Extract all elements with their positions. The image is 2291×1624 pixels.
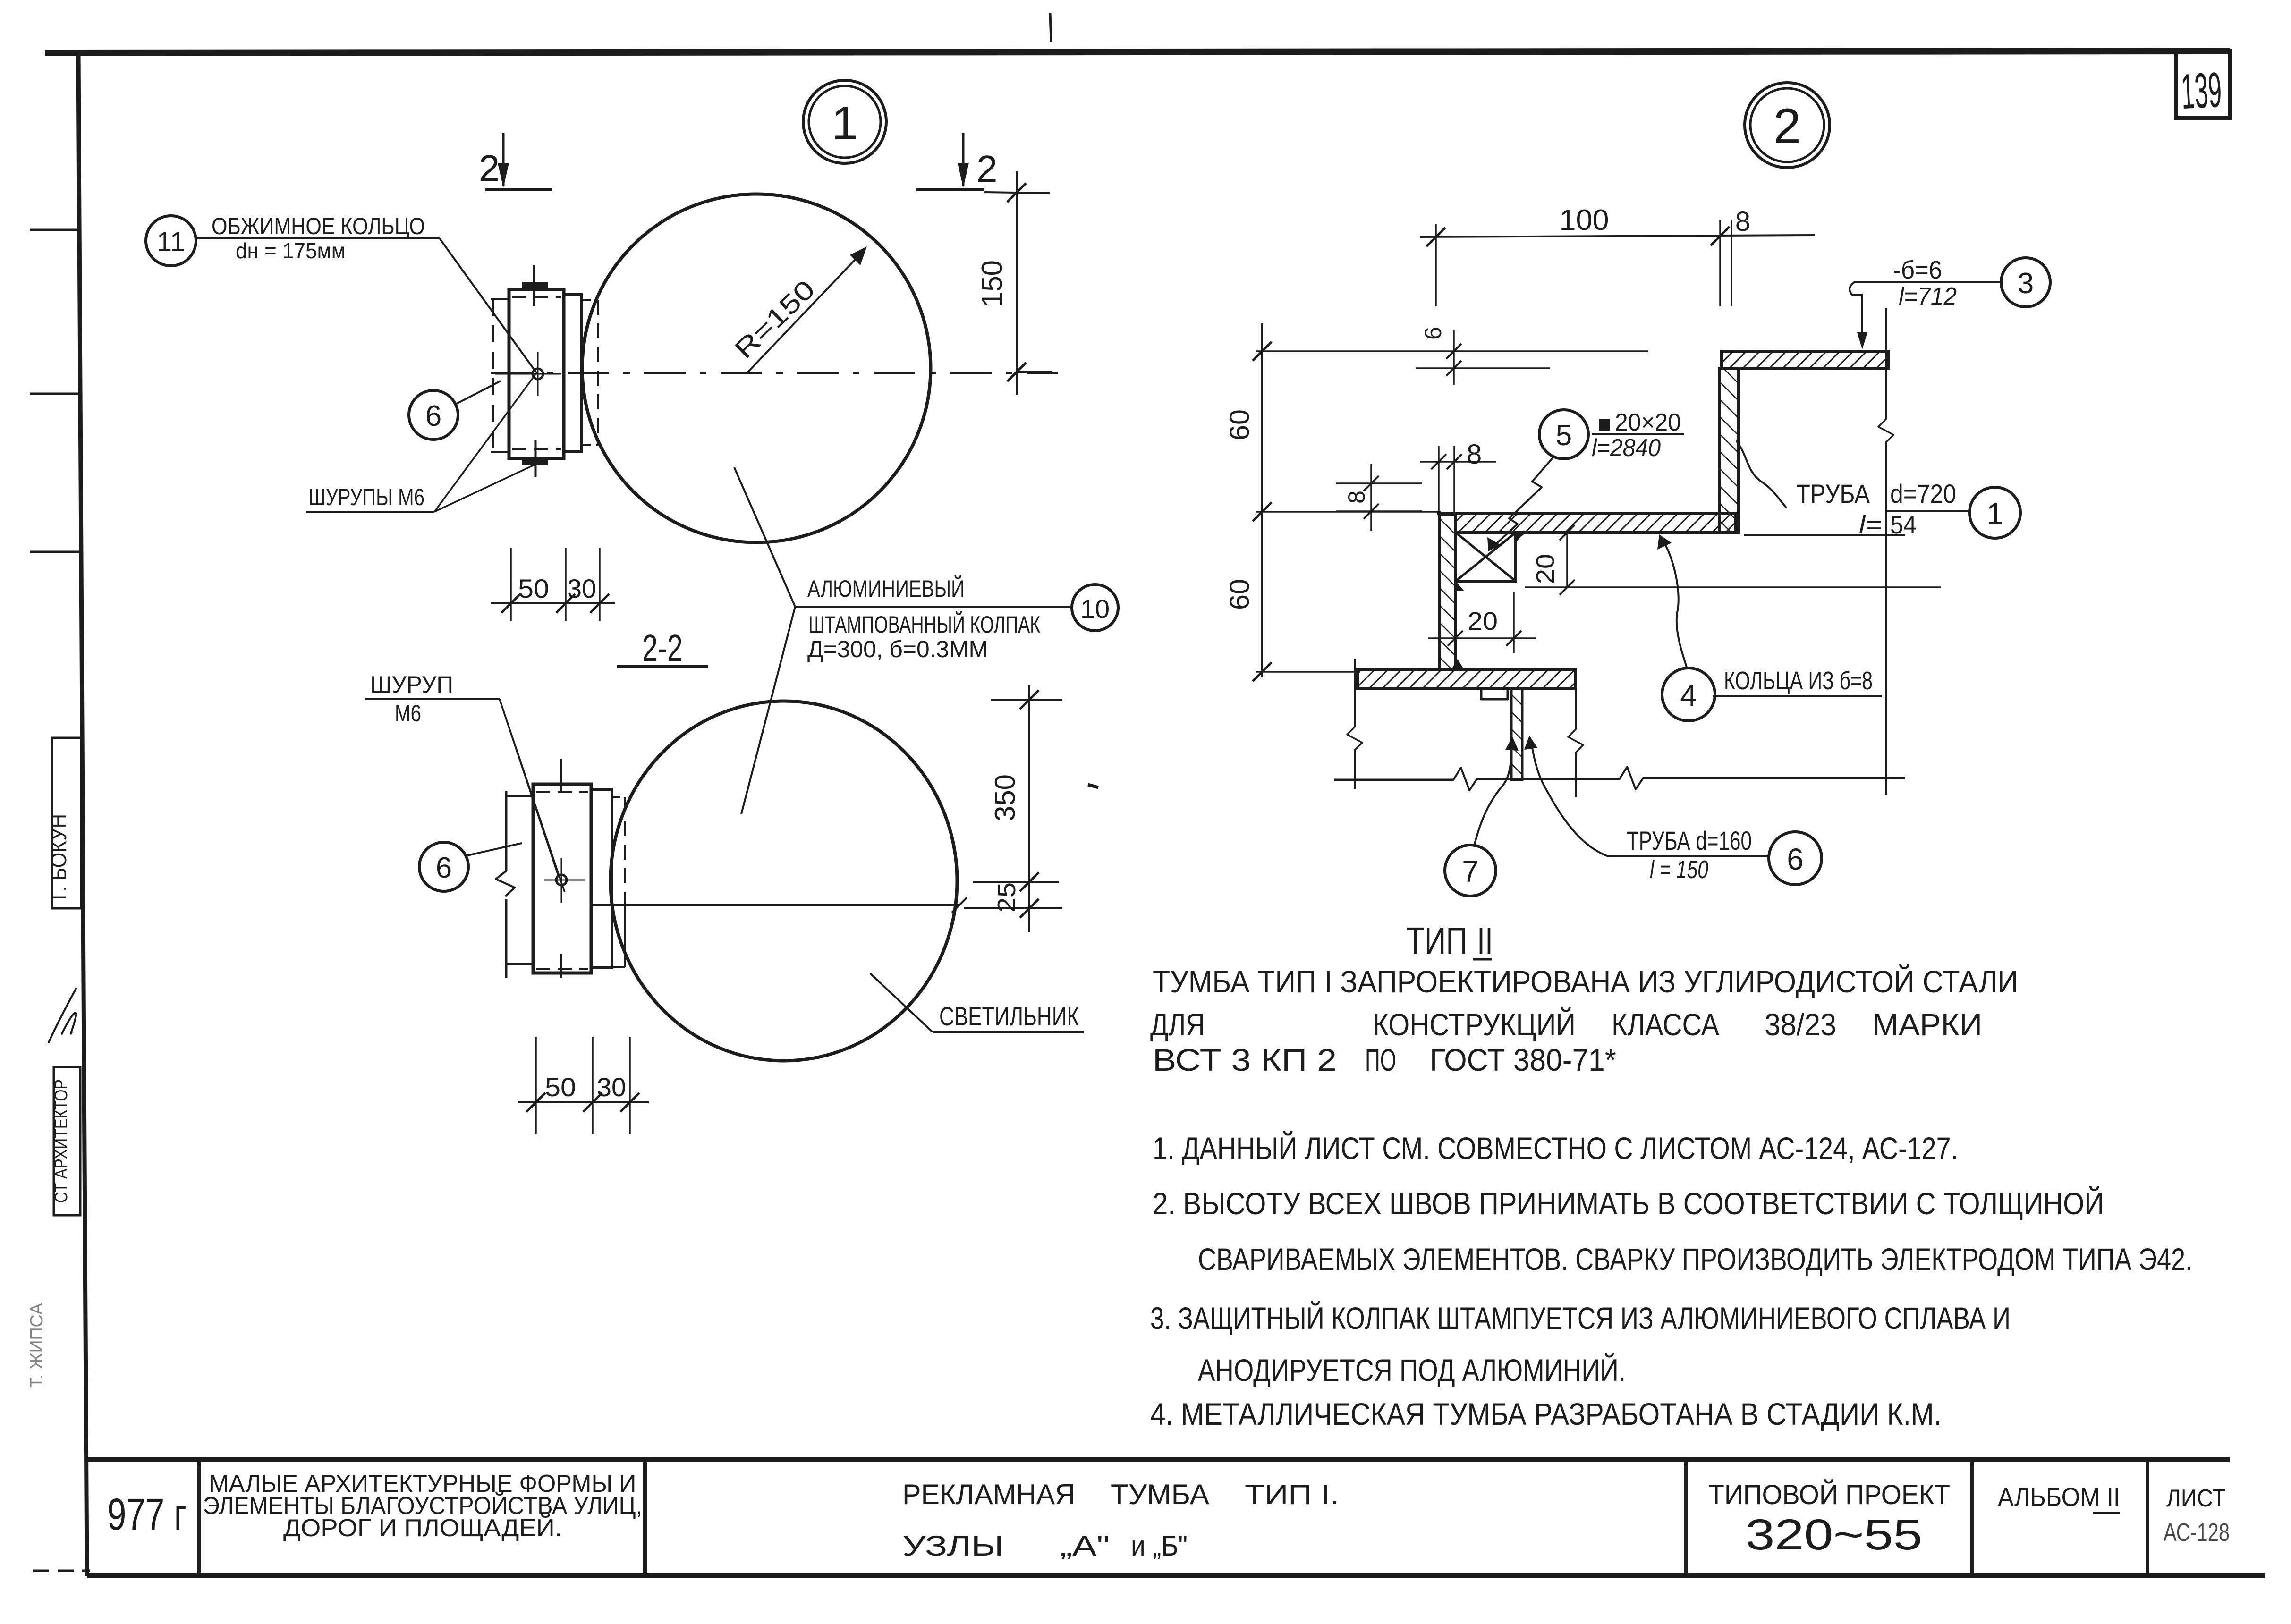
svg-text:АС-128: АС-128 (2164, 1518, 2230, 1547)
svg-text:ДОРОГ И ПЛОЩАДЕЙ.: ДОРОГ И ПЛОЩАДЕЙ. (283, 1514, 562, 1542)
left margin tick 3 (30, 551, 80, 553)
svg-text:977 г: 977 г (107, 1489, 187, 1539)
tiny registration dash top center (1050, 13, 1051, 42)
ground line with breaks (1334, 779, 1453, 781)
left margin tick bottom dashed (33, 1570, 90, 1572)
svg-text:139: 139 (2180, 62, 2223, 119)
svg-text:38/23: 38/23 (1765, 1007, 1836, 1042)
svg-text:ШТАМПОВАННЫЙ КОЛПАК: ШТАМПОВАННЫЙ КОЛПАК (808, 611, 1040, 638)
svg-text:М6: М6 (395, 700, 421, 727)
svg-text:30: 30 (567, 574, 596, 603)
svg-text:20: 20 (1531, 554, 1560, 584)
dimension 150 node A (984, 192, 1050, 193)
leader cap label aluminium stamped cap (734, 467, 795, 607)
screw centerlines 2-2 (560, 759, 562, 793)
dimension 6 plate thickness (1416, 367, 1550, 369)
detail mark 2 double circle (1745, 83, 1830, 168)
step under flange (1481, 688, 1508, 699)
bottom tube stub hatched (1511, 688, 1522, 780)
svg-text:ВСТ 3 КП 2: ВСТ 3 КП 2 (1153, 1042, 1337, 1077)
svg-text:2-2: 2-2 (642, 627, 683, 669)
screw head top (522, 282, 548, 289)
lower wall hatched (1439, 514, 1455, 670)
left margin tick 2 (30, 393, 80, 395)
dimension 20 lower (1428, 637, 1536, 639)
sphere center line dashed (491, 372, 1058, 374)
middle shelf plate hatched (1456, 514, 1736, 533)
svg-text:и „Б": и „Б" (1131, 1530, 1188, 1562)
dimension 60 60 left (1261, 323, 1263, 677)
svg-text:50: 50 (518, 574, 549, 603)
radius arrow R=150 (747, 250, 864, 373)
svg-text:50: 50 (545, 1072, 576, 1102)
detail mark 1 double circle (803, 80, 886, 163)
svg-text:8: 8 (1343, 491, 1370, 504)
svg-text:ГОСТ 380-71*: ГОСТ 380-71* (1430, 1042, 1616, 1077)
svg-text:ТИПОВОЙ ПРОЕКТ: ТИПОВОЙ ПРОЕКТ (1708, 1480, 1950, 1510)
angle 20x20 weld box (1456, 533, 1516, 581)
svg-text:ТРУБА d=160: ТРУБА d=160 (1627, 826, 1752, 855)
screw head bottom (522, 458, 548, 465)
architect signature (49, 989, 76, 1042)
svg-text:КОЛЬЦА ИЗ б=8: КОЛЬЦА ИЗ б=8 (1724, 667, 1873, 695)
svg-text:Т. ЖИПСА: Т. ЖИПСА (27, 1303, 47, 1388)
svg-text:6: 6 (425, 400, 441, 432)
svg-text:60: 60 (1224, 579, 1255, 610)
svg-text:ПО: ПО (1365, 1042, 1396, 1077)
svg-text:2. ВЫСОТУ ВСЕХ ШВОВ ПРИН: 2. ВЫСОТУ ВСЕХ ШВОВ ПРИНИМАТЬ В СООТВЕТС… (1153, 1185, 2104, 1221)
lamp sphere circle R150 (582, 194, 931, 542)
section mark 2 left (485, 188, 552, 191)
upper tube wall hatched (1719, 368, 1739, 533)
lamp sphere section 2-2 (611, 701, 957, 1061)
title block frame (87, 1457, 2230, 1462)
callout 5 angle 20x20 (1539, 410, 1588, 459)
svg-text:Д=300, б=0.3ММ: Д=300, б=0.3ММ (807, 636, 988, 662)
callout 4 rings b=8 (1662, 668, 1715, 721)
svg-text:2: 2 (1773, 99, 1801, 154)
svg-text:2: 2 (479, 147, 500, 189)
svg-text:5: 5 (1556, 419, 1572, 452)
callout 6 node A (409, 390, 458, 440)
svg-text:d=720: d=720 (1890, 479, 1956, 508)
svg-text:3: 3 (2018, 267, 2034, 300)
svg-text:20: 20 (1468, 607, 1498, 635)
svg-text:II: II (1477, 920, 1493, 962)
dimension 8 wall thickness (1438, 446, 1440, 514)
dimension 8 left of wall (1370, 464, 1372, 531)
svg-text:ШУРУП: ШУРУП (370, 671, 453, 698)
svg-text:АЛЮМИНИЕВЫЙ: АЛЮМИНИЕВЫЙ (807, 575, 965, 602)
svg-text:l = 150: l = 150 (1650, 855, 1708, 884)
dimension 50 30 node A (510, 548, 512, 621)
right long extension line (1885, 308, 1887, 419)
svg-text:l=712: l=712 (1899, 282, 1957, 311)
section mark 2 right (916, 188, 984, 191)
svg-text:3. ЗАЩИТНЫЙ КОЛПАК ШТАМПУ: 3. ЗАЩИТНЫЙ КОЛПАК ШТАМПУЕТСЯ ИЗ АЛЮМИНИ… (1150, 1300, 2011, 1336)
svg-text:10: 10 (1080, 594, 1110, 624)
stray mark (1088, 785, 1098, 787)
svg-text:2: 2 (976, 148, 998, 190)
svg-text:МАРКИ: МАРКИ (1872, 1007, 1982, 1042)
svg-text:dн = 175мм: dн = 175мм (236, 238, 346, 263)
svg-text:ТУМБА ТИП I ЗАПРОЕКТИРОВАНА И: ТУМБА ТИП I ЗАПРОЕКТИРОВАНА ИЗ УГЛИРОДИС… (1153, 964, 2018, 999)
label truba d=720 callout 1 (1737, 441, 1786, 507)
svg-text:-б=6: -б=6 (1893, 256, 1942, 284)
screw hole node A (533, 369, 543, 379)
sheet border left (78, 53, 87, 1576)
svg-text:1: 1 (1986, 497, 2003, 531)
svg-text:ТРУБА: ТРУБА (1796, 479, 1870, 508)
svg-text:11: 11 (157, 227, 185, 257)
svg-text:Г. БОКУН: Г. БОКУН (46, 814, 71, 900)
page number box 139 (2176, 51, 2230, 118)
clamp ring assembly node A (492, 299, 494, 452)
screw hole 2-2 (556, 875, 567, 885)
svg-text:4: 4 (1680, 678, 1697, 712)
svg-text:8: 8 (1735, 206, 1750, 237)
svg-text:РЕКЛАМНАЯ: РЕКЛАМНАЯ (902, 1479, 1075, 1510)
svg-text:l=2840: l=2840 (1592, 434, 1661, 462)
left flange extension line (1354, 659, 1356, 727)
svg-text:20×20: 20×20 (1615, 409, 1681, 436)
svg-text:320~55: 320~55 (1746, 1511, 1923, 1559)
svg-text:АНОДИРУЕТСЯ ПОД АЛЮМИНИЙ.: АНОДИРУЕТСЯ ПОД АЛЮМИНИЙ. (1198, 1352, 1626, 1387)
svg-text:ШУРУПЫ М6: ШУРУПЫ М6 (308, 484, 424, 510)
svg-text:ОБЖИМНОЕ КОЛЬЦО: ОБЖИМНОЕ КОЛЬЦО (212, 213, 425, 239)
sphere chord line (592, 904, 959, 906)
svg-text:КОНСТРУКЦИЙ: КОНСТРУКЦИЙ (1373, 1007, 1576, 1042)
sheet border top (45, 51, 2230, 53)
svg-text:КЛАССА: КЛАССА (1612, 1007, 1719, 1042)
svg-text:„А": „А" (1060, 1530, 1110, 1562)
clamp ring assembly 2-2 (505, 791, 508, 871)
svg-text:АЛЬБОМ II: АЛЬБОМ II (1998, 1482, 2120, 1512)
callout 10 (1072, 584, 1118, 631)
svg-text:7: 7 (1462, 854, 1479, 888)
svg-text:СВЕТИЛЬНИК: СВЕТИЛЬНИК (939, 1001, 1079, 1031)
stamp cell: architect name box (52, 738, 81, 908)
svg-text:60: 60 (1224, 409, 1255, 440)
svg-text:СВАРИВАЕМЫХ ЭЛЕМЕНТОВ. СВАР: СВАРИВАЕМЫХ ЭЛЕМЕНТОВ. СВАРКУ ПРОИЗВОДИТ… (1198, 1242, 2192, 1277)
svg-text:100: 100 (1560, 204, 1609, 237)
top plate hatched (1722, 351, 1889, 368)
dimension 100 and 8 top (1420, 235, 1815, 237)
faint margin inscription (27, 1303, 47, 1388)
svg-text:1: 1 (832, 97, 858, 150)
svg-text:ТИП: ТИП (1406, 920, 1468, 962)
svg-text:УЗЛЫ: УЗЛЫ (902, 1530, 1004, 1562)
dimension 20 under shelf (1566, 533, 1568, 587)
svg-text:8: 8 (1467, 439, 1482, 470)
svg-text:150: 150 (976, 260, 1009, 307)
stamp cell: st architect box (54, 1067, 80, 1215)
dimension 350 and 25 (1028, 685, 1030, 932)
svg-text:ТИП I.: ТИП I. (1245, 1480, 1339, 1510)
callout 6 section 2-2 (419, 842, 468, 891)
svg-text:25: 25 (993, 882, 1021, 913)
svg-text:ТУМБА: ТУМБА (1111, 1479, 1209, 1510)
svg-text:1. ДАННЫЙ ЛИСТ СМ. СОВМЕСТН: 1. ДАННЫЙ ЛИСТ СМ. СОВМЕСТНО С ЛИСТОМ АС… (1153, 1130, 1958, 1166)
svg-text:ЛИСТ: ЛИСТ (2166, 1485, 2226, 1512)
right flange extension line (1575, 673, 1577, 729)
svg-text:СТ АРХИТЕКТОР: СТ АРХИТЕКТОР (51, 1079, 71, 1203)
svg-text:30: 30 (597, 1072, 626, 1102)
svg-text:6: 6 (1420, 327, 1446, 340)
bottom flange hatched (1358, 670, 1576, 688)
svg-text:350: 350 (989, 774, 1021, 821)
svg-text:4. МЕТАЛЛИЧЕСКАЯ ТУМБА РАЗР: 4. МЕТАЛЛИЧЕСКАЯ ТУМБА РАЗРАБОТАНА В СТА… (1150, 1396, 1942, 1431)
svg-text:6: 6 (436, 852, 452, 884)
left margin tick 1 (30, 229, 80, 231)
dimension 50 30 section 2-2 (535, 1037, 537, 1134)
svg-text:ДЛЯ: ДЛЯ (1150, 1007, 1205, 1042)
callout 7 bottom tube (1445, 845, 1496, 896)
callout 11 clamping ring (146, 216, 196, 266)
svg-text:6: 6 (1787, 842, 1804, 876)
